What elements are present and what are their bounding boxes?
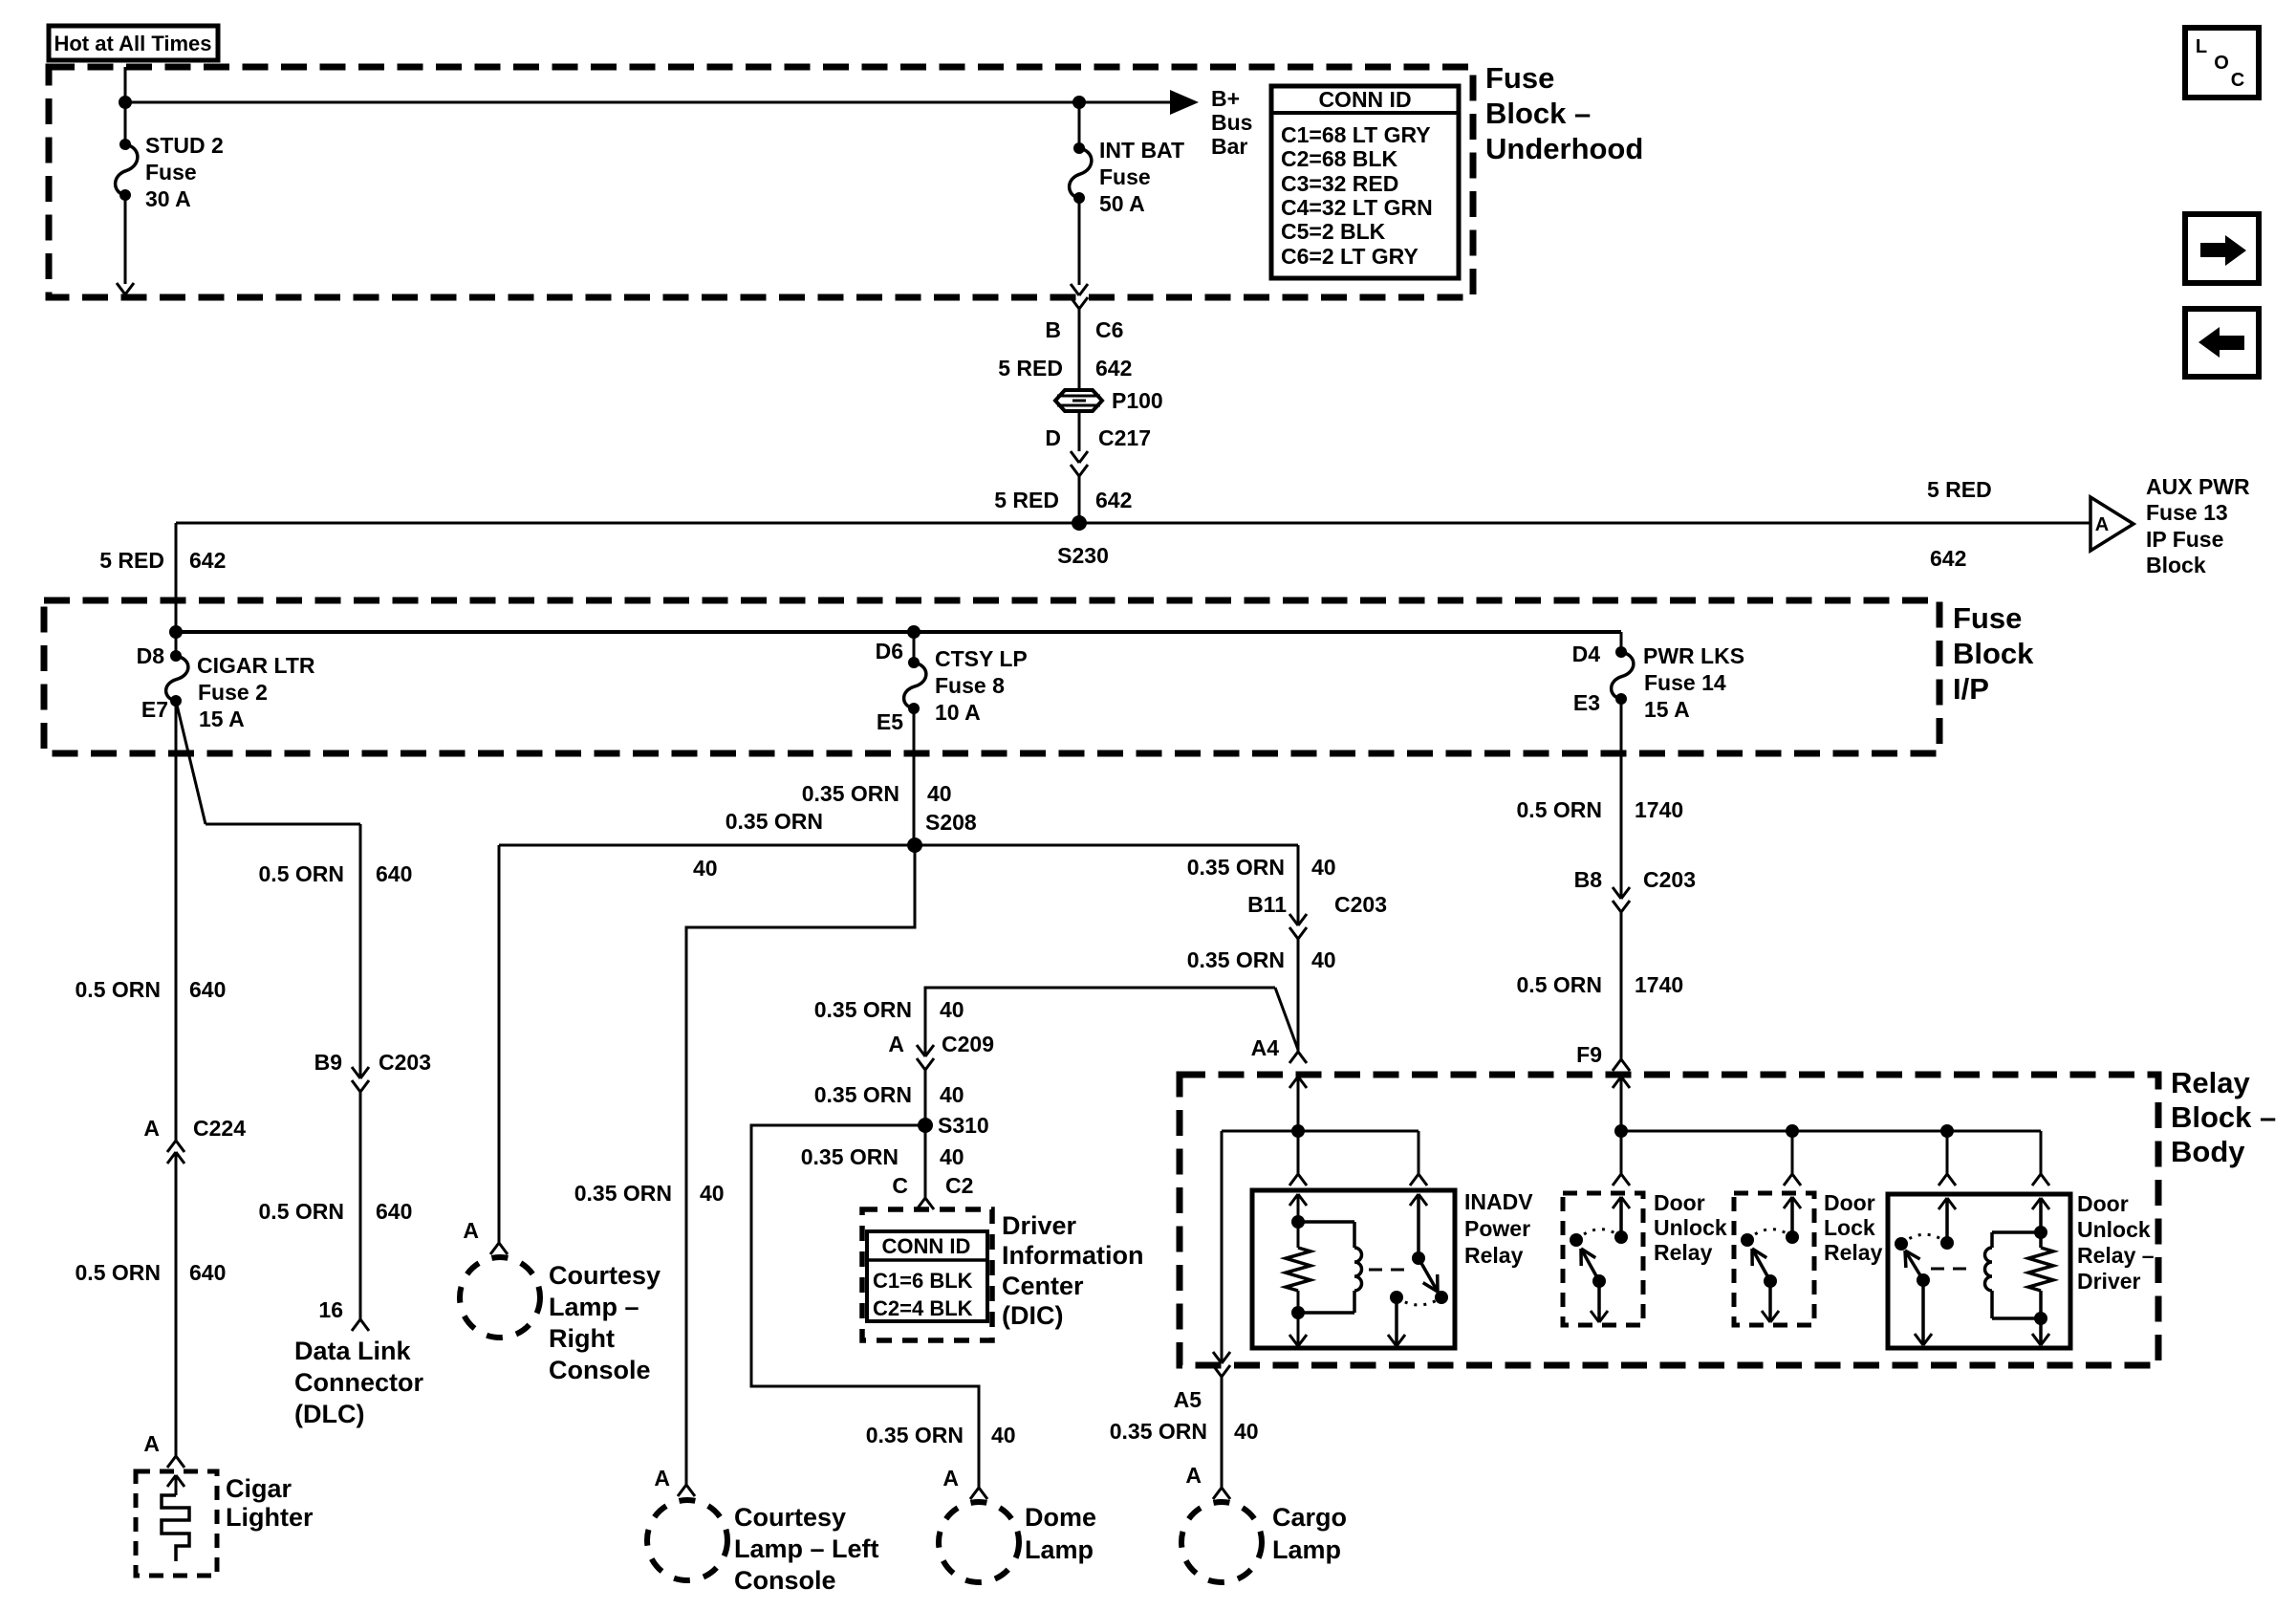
svg-text:640: 640 — [376, 861, 412, 886]
svg-text:A4: A4 — [1251, 1035, 1280, 1060]
svg-text:Relay –: Relay – — [2077, 1243, 2155, 1268]
connector: A / C224 — [167, 1141, 184, 1152]
svg-text:Bar: Bar — [1211, 134, 1247, 159]
svg-text:642: 642 — [1095, 488, 1132, 512]
svg-text:Unlock: Unlock — [1654, 1215, 1727, 1240]
svg-text:C203: C203 — [1643, 867, 1696, 892]
svg-text:C6=2 LT GRY: C6=2 LT GRY — [1281, 244, 1419, 269]
svg-text:Fuse 2: Fuse 2 — [198, 680, 268, 705]
svg-text:C2=68 BLK: C2=68 BLK — [1281, 146, 1397, 171]
svg-text:A: A — [143, 1116, 160, 1141]
switch: Door Unlock Relay — [1613, 1197, 1621, 1208]
svg-text:C2: C2 — [945, 1173, 973, 1198]
wire: S310 to DIC connector C2 — [924, 1125, 927, 1198]
wire: corner from DIC feeder to B11 line — [925, 988, 1275, 1056]
svg-text:D6: D6 — [876, 639, 903, 664]
wire: 0.35 ORN 40 from C209 to S310 — [924, 1070, 927, 1125]
connector chevron Lock relay — [1784, 1174, 1801, 1186]
connector: B9 / C203 — [352, 1067, 360, 1078]
svg-text:C1=68 LT GRY: C1=68 LT GRY — [1281, 122, 1431, 147]
svg-text:CIGAR LTR: CIGAR LTR — [197, 653, 315, 678]
connector: B8 / C203 — [1613, 887, 1621, 899]
svg-text:40: 40 — [693, 856, 718, 881]
svg-text:0.5 ORN: 0.5 ORN — [76, 1260, 161, 1285]
svg-text:0.35 ORN: 0.35 ORN — [814, 1082, 912, 1107]
svg-text:D: D — [1045, 425, 1061, 450]
wire: S230 drop to Fuse Block I/P — [175, 523, 178, 632]
svg-text:0.35 ORN: 0.35 ORN — [814, 997, 912, 1022]
svg-text:0.35 ORN: 0.35 ORN — [1110, 1419, 1207, 1444]
node: junction dot on B+ bus at STUD 2 feed — [119, 96, 132, 109]
wire: INADV coil output arrow — [1297, 1313, 1300, 1344]
wire: driver relay switch-side corner — [2040, 1131, 2043, 1174]
table: CONN ID (DIC) — [867, 1231, 987, 1321]
connector chevron driver relay switch pin — [1939, 1174, 1956, 1186]
wire: DLC branch horizontal — [206, 823, 360, 826]
svg-text:A: A — [1185, 1463, 1202, 1488]
svg-text:Relay: Relay — [2171, 1066, 2250, 1099]
svg-text:40: 40 — [1234, 1419, 1259, 1444]
wire: 5 RED 642 from C217 to S230 — [1078, 476, 1081, 523]
svg-text:A: A — [143, 1431, 160, 1456]
wire: feed drop to Door Lock relay — [1791, 1131, 1794, 1174]
wire: INT BAT fuse feed — [1078, 102, 1081, 148]
svg-text:B8: B8 — [1574, 867, 1603, 892]
connector chevron at dome lamp — [970, 1488, 987, 1499]
svg-text:640: 640 — [189, 1260, 226, 1285]
svg-text:Door: Door — [1824, 1190, 1875, 1215]
wire: I/P internal bus — [176, 630, 1621, 634]
svg-text:Block: Block — [1953, 637, 2034, 670]
connector: B / C6 at underhood block edge — [1071, 284, 1079, 295]
svg-text:A: A — [942, 1466, 959, 1490]
svg-text:S230: S230 — [1057, 543, 1109, 568]
component: Dome Lamp (dashed circle) — [939, 1502, 1019, 1582]
svg-text:Lamp: Lamp — [1025, 1535, 1094, 1564]
svg-text:C5=2 BLK: C5=2 BLK — [1281, 219, 1386, 244]
svg-text:40: 40 — [940, 997, 964, 1022]
wire: F9 into relay block — [1620, 1077, 1623, 1131]
svg-text:Unlock: Unlock — [2077, 1217, 2151, 1242]
svg-text:640: 640 — [376, 1199, 412, 1224]
component: INADV Power Relay (box) — [1252, 1190, 1455, 1348]
svg-text:Data Link: Data Link — [294, 1337, 412, 1365]
svg-text:Lamp –: Lamp – — [549, 1293, 639, 1321]
wire: S208 horizontal to courtesy lamp right and B11 — [499, 844, 1298, 847]
pin arrow into cigar lighter — [167, 1475, 176, 1487]
svg-text:AUX PWR: AUX PWR — [2146, 474, 2250, 499]
svg-text:Lighter: Lighter — [226, 1503, 314, 1532]
wire: 0.5 ORN 640 from C203 to DLC — [359, 1092, 362, 1319]
label box: Hot at All Times — [49, 26, 218, 60]
wire: INADV pin 2 drop — [1418, 1131, 1420, 1174]
svg-text:16: 16 — [318, 1297, 343, 1322]
svg-text:O: O — [2214, 53, 2229, 74]
svg-text:15 A: 15 A — [199, 707, 245, 731]
svg-text:10 A: 10 A — [935, 700, 981, 725]
svg-text:Hot at All Times: Hot at All Times — [54, 32, 211, 55]
wire: INT BAT fuse output with arrow to block edge — [1078, 198, 1081, 285]
wire: 0.35 ORN 40 from C203 to A4 — [1297, 939, 1300, 1052]
svg-text:5 RED: 5 RED — [994, 488, 1059, 512]
svg-text:1740: 1740 — [1635, 972, 1683, 997]
connector: A / C209 — [917, 1045, 925, 1056]
svg-text:Driver: Driver — [1002, 1211, 1077, 1240]
svg-text:(DIC): (DIC) — [1002, 1301, 1063, 1330]
connector chevron at courtesy lamp left — [678, 1485, 695, 1496]
connector chevron driver relay coil pin — [2032, 1174, 2049, 1186]
svg-text:C: C — [892, 1173, 908, 1198]
connector chevron INADV pin 2 — [1410, 1174, 1427, 1186]
element: cigar lighter heater — [162, 1495, 189, 1561]
fuse: INT BAT Fuse 50 A — [1070, 148, 1092, 198]
switch: Door Unlock Relay - Driver — [1939, 1198, 1947, 1209]
svg-text:0.35 ORN: 0.35 ORN — [726, 809, 823, 834]
svg-text:A: A — [888, 1032, 904, 1056]
svg-text:C203: C203 — [379, 1050, 431, 1075]
svg-text:0.35 ORN: 0.35 ORN — [1187, 947, 1285, 972]
svg-text:Fuse 14: Fuse 14 — [1644, 670, 1726, 695]
svg-text:Fuse: Fuse — [1485, 61, 1554, 95]
svg-text:Lock: Lock — [1824, 1215, 1875, 1240]
fuse: CTSY LP Fuse 8 10 A — [904, 663, 926, 708]
svg-text:C2=4 BLK: C2=4 BLK — [873, 1296, 973, 1320]
svg-text:5 RED: 5 RED — [998, 356, 1063, 381]
wire: 0.5 ORN 1740 from E3 to B8 — [1620, 699, 1623, 899]
wire: relay block bus (door relays) — [1621, 1130, 2041, 1133]
wire: 0.5 ORN 640 from C224 to cigar lighter — [175, 1152, 178, 1456]
svg-text:B: B — [1045, 317, 1061, 342]
svg-text:0.5 ORN: 0.5 ORN — [76, 977, 161, 1002]
svg-text:Body: Body — [2171, 1135, 2245, 1168]
svg-text:0.5 ORN: 0.5 ORN — [1517, 797, 1602, 822]
svg-text:B11: B11 — [1247, 892, 1287, 917]
svg-text:Dome: Dome — [1025, 1503, 1096, 1532]
wire: relay block bus (A4 side) — [1222, 1130, 1419, 1133]
arrow into relay block at F9 — [1613, 1077, 1621, 1088]
wire: A5 drop out of relay block — [1221, 1131, 1224, 1361]
component: Courtesy Lamp - Right Console (dashed circle) — [460, 1257, 540, 1338]
coil: INADV relay coil — [1298, 1220, 1354, 1224]
block: Fuse Block I/P (dashed) — [44, 600, 1939, 753]
node: junction dot at CIGAR LTR fuse feed — [169, 625, 183, 639]
connector chevron at A4 — [1289, 1052, 1307, 1063]
svg-text:A: A — [2095, 514, 2109, 535]
fuse: STUD 2 Fuse 30 A — [116, 144, 138, 195]
svg-text:E5: E5 — [877, 709, 903, 734]
svg-text:642: 642 — [189, 548, 226, 573]
component: Cargo Lamp (dashed circle) — [1181, 1502, 1262, 1582]
svg-text:0.5 ORN: 0.5 ORN — [259, 861, 344, 886]
svg-text:Courtesy: Courtesy — [734, 1503, 846, 1532]
connector chevron at courtesy lamp right — [490, 1243, 508, 1254]
component: Door Unlock Relay - Driver (box) — [1888, 1194, 2070, 1348]
svg-text:40: 40 — [700, 1181, 725, 1206]
svg-text:C1=6 BLK: C1=6 BLK — [873, 1269, 973, 1293]
wire: driver relay coil output arrow — [2039, 1318, 2043, 1343]
svg-text:Right: Right — [549, 1324, 615, 1353]
svg-text:CTSY LP: CTSY LP — [935, 646, 1028, 671]
wire: 0.5 ORN 640 down to B9 — [359, 824, 362, 1078]
svg-text:642: 642 — [1930, 546, 1966, 571]
svg-text:30 A: 30 A — [145, 186, 191, 211]
svg-text:A: A — [463, 1218, 479, 1243]
svg-text:A5: A5 — [1174, 1387, 1202, 1412]
svg-text:Relay: Relay — [1464, 1243, 1524, 1268]
svg-text:CONN ID: CONN ID — [1318, 87, 1411, 112]
wire: S310 left to dome lamp drop — [751, 1125, 979, 1488]
fuse: CIGAR LTR Fuse 2 15 A — [166, 656, 188, 701]
node: junction dot on B+ bus at INT BAT feed — [1072, 96, 1086, 109]
block: Relay Block - Body (dashed) — [1180, 1075, 2158, 1365]
dashed actuator link INADV — [1369, 1269, 1412, 1272]
resistor: INADV relay resistor — [1297, 1222, 1300, 1248]
wire: P100 to C217 — [1078, 411, 1081, 451]
block: Fuse Block - Underhood (dashed) — [49, 67, 1473, 297]
svg-text:(DLC): (DLC) — [294, 1400, 364, 1428]
icon: back arrow box — [2185, 309, 2259, 377]
connector chevron at cigar lighter — [167, 1456, 184, 1468]
wire: S230 horizontal bus to AUX PWR and IP fuse block — [176, 522, 2090, 525]
svg-text:L: L — [2196, 36, 2207, 57]
svg-text:0.35 ORN: 0.35 ORN — [1187, 855, 1285, 880]
wire: feed to CTSY LP fuse — [913, 632, 916, 663]
svg-text:C217: C217 — [1098, 425, 1151, 450]
svg-text:Console: Console — [549, 1356, 651, 1384]
svg-text:Cigar: Cigar — [226, 1474, 292, 1503]
connector: D / C217 — [1071, 451, 1079, 463]
svg-text:5 RED: 5 RED — [99, 548, 164, 573]
svg-text:50 A: 50 A — [1099, 191, 1145, 216]
svg-text:Bus: Bus — [1211, 110, 1252, 135]
svg-text:1740: 1740 — [1635, 797, 1683, 822]
svg-text:Underhood: Underhood — [1485, 132, 1643, 165]
svg-text:Fuse: Fuse — [145, 160, 197, 185]
svg-text:S208: S208 — [925, 810, 977, 835]
svg-text:CONN ID: CONN ID — [882, 1234, 971, 1258]
svg-text:0.5 ORN: 0.5 ORN — [1517, 972, 1602, 997]
wire: 5 RED 642 from C6 to P100 — [1078, 309, 1081, 390]
svg-text:40: 40 — [927, 781, 952, 806]
svg-text:0.35 ORN: 0.35 ORN — [801, 1144, 899, 1169]
svg-text:C3=32 RED: C3=32 RED — [1281, 171, 1398, 196]
svg-text:Lamp: Lamp — [1272, 1535, 1341, 1564]
coil: Door Unlock Relay - Driver coil — [2032, 1198, 2041, 1209]
splice: P100 — [1055, 390, 1102, 411]
svg-text:Door: Door — [1654, 1190, 1705, 1215]
wire: 0.35 ORN 40 from E5 to S208 — [913, 708, 916, 845]
wire: S208 line corner down to B11 — [1297, 845, 1300, 925]
svg-text:Fuse: Fuse — [1099, 164, 1151, 189]
svg-text:40: 40 — [1311, 855, 1336, 880]
node: junction dot door unlock relay feed — [1614, 1124, 1628, 1138]
svg-text:Door: Door — [2077, 1191, 2129, 1216]
wire: 0.5 ORN 640 from E7 down to C224 — [175, 701, 178, 1141]
svg-text:E7: E7 — [141, 697, 168, 722]
svg-text:Cargo: Cargo — [1272, 1503, 1347, 1532]
svg-text:15 A: 15 A — [1644, 697, 1690, 722]
component: Courtesy Lamp - Left Console (dashed circle) — [647, 1500, 727, 1580]
svg-text:C: C — [2231, 70, 2244, 91]
off-page connector A to AUX PWR Fuse 13 IP Fuse Block — [2090, 497, 2134, 551]
wire: S208 drop then left to courtesy lamp left console — [686, 845, 915, 1485]
node: junction dot at CTSY LP fuse feed — [907, 625, 921, 639]
wire: diagonal into A4 — [1275, 988, 1298, 1050]
svg-text:INT BAT: INT BAT — [1099, 138, 1184, 163]
wire: battery feed into STUD 2 fuse — [124, 67, 127, 144]
wire: STUD 2 fuse output with arrow to block edge — [124, 195, 127, 284]
wire: feed drop to Door Unlock relay — [1620, 1131, 1623, 1174]
connector chevron INADV pin 1 — [1289, 1174, 1307, 1186]
connector chevron at DIC — [917, 1198, 934, 1209]
node: junction dot driver relay switch feed — [1940, 1124, 1954, 1138]
svg-text:D8: D8 — [137, 643, 165, 668]
svg-text:Fuse 13: Fuse 13 — [2146, 500, 2228, 525]
dashed actuator link driver relay — [1931, 1268, 1971, 1271]
pin arrow INADV coil — [1289, 1194, 1298, 1206]
svg-text:Information: Information — [1002, 1241, 1144, 1270]
svg-text:C224: C224 — [193, 1116, 246, 1141]
node: junction dot A4 bus — [1291, 1124, 1305, 1138]
svg-text:P100: P100 — [1112, 388, 1163, 413]
svg-text:Connector: Connector — [294, 1368, 423, 1397]
svg-text:S310: S310 — [938, 1113, 989, 1138]
svg-text:B9: B9 — [314, 1050, 342, 1075]
table: CONN ID (underhood fuse block) — [1271, 86, 1459, 278]
svg-text:C6: C6 — [1095, 317, 1123, 342]
svg-text:F9: F9 — [1576, 1042, 1602, 1067]
icon: forward arrow box — [2185, 214, 2259, 283]
svg-text:Console: Console — [734, 1566, 836, 1595]
wire: feed drop to driver relay switch — [1946, 1131, 1949, 1174]
svg-text:Fuse 8: Fuse 8 — [935, 673, 1005, 698]
svg-text:Block –: Block – — [2171, 1100, 2276, 1134]
node: INADV coil top junction — [1291, 1215, 1305, 1229]
svg-text:C4=32 LT GRN: C4=32 LT GRN — [1281, 195, 1433, 220]
wire: B+ bus bar — [125, 101, 1179, 104]
svg-text:40: 40 — [940, 1082, 964, 1107]
svg-text:INADV: INADV — [1464, 1189, 1533, 1214]
connector chevron A5 below relay block — [1213, 1365, 1230, 1377]
svg-text:E3: E3 — [1573, 690, 1600, 715]
wire: drop to Courtesy Lamp - Right Console — [498, 845, 501, 1243]
switch: Door Lock Relay — [1784, 1197, 1792, 1208]
icon: LOC box — [2185, 28, 2259, 98]
connector chevron at DLC — [352, 1319, 369, 1331]
wire: A4 into relay block — [1297, 1077, 1300, 1131]
svg-text:Block –: Block – — [1485, 97, 1591, 130]
wire: INADV pin 1 drop — [1297, 1131, 1300, 1174]
wire: 0.5 ORN 1740 from C203 to F9 — [1620, 912, 1623, 1059]
resistor: Door Unlock Relay - Driver resistor — [2028, 1248, 2053, 1291]
node: junction dot door lock relay feed — [1786, 1124, 1799, 1138]
arrow: B+ bus bar arrowhead — [1170, 90, 1199, 115]
svg-text:I/P: I/P — [1953, 672, 1989, 706]
component: Cigar Lighter (dashed box) — [136, 1471, 217, 1576]
svg-text:C203: C203 — [1334, 892, 1387, 917]
svg-text:Block: Block — [2146, 553, 2206, 577]
svg-text:B+: B+ — [1211, 86, 1240, 111]
svg-text:PWR LKS: PWR LKS — [1643, 643, 1744, 668]
svg-text:0.5 ORN: 0.5 ORN — [259, 1199, 344, 1224]
svg-text:40: 40 — [991, 1423, 1016, 1447]
connector chevron at cargo lamp — [1213, 1488, 1230, 1499]
svg-text:40: 40 — [1311, 947, 1336, 972]
svg-text:0.35 ORN: 0.35 ORN — [802, 781, 899, 806]
svg-text:40: 40 — [940, 1144, 964, 1169]
svg-text:Courtesy: Courtesy — [549, 1261, 661, 1290]
fuse: PWR LKS Fuse 14 15 A — [1612, 652, 1634, 699]
wire: feed to CIGAR LTR fuse — [175, 632, 178, 656]
svg-text:A: A — [654, 1466, 670, 1490]
svg-text:Fuse: Fuse — [1953, 601, 2022, 635]
svg-text:D4: D4 — [1572, 642, 1601, 666]
svg-text:IP Fuse: IP Fuse — [2146, 527, 2223, 552]
component: Door Lock Relay (dashed box) — [1734, 1193, 1814, 1325]
svg-text:5 RED: 5 RED — [1927, 477, 1992, 502]
svg-text:Relay: Relay — [1654, 1240, 1713, 1265]
component: Door Unlock Relay (dashed box) — [1563, 1193, 1643, 1325]
node: splice S310 — [918, 1118, 933, 1133]
wire: E7 diagonal to DLC branch — [176, 701, 206, 824]
connector chevron at F9 — [1613, 1059, 1630, 1071]
svg-text:C209: C209 — [942, 1032, 994, 1056]
switch: INADV relay switch — [1417, 1194, 1420, 1258]
svg-text:640: 640 — [189, 977, 226, 1002]
node: splice S208 — [907, 838, 922, 853]
svg-text:0.35 ORN: 0.35 ORN — [866, 1423, 964, 1447]
node: INADV coil bottom junction — [1291, 1306, 1305, 1319]
node: splice S230 — [1072, 515, 1087, 531]
svg-text:0.35 ORN: 0.35 ORN — [574, 1181, 672, 1206]
svg-text:Relay: Relay — [1824, 1240, 1883, 1265]
component: Driver Information Center (dashed box) — [862, 1209, 992, 1340]
wire: 0.35 ORN 40 to cargo lamp — [1221, 1377, 1224, 1488]
svg-text:Driver: Driver — [2077, 1269, 2141, 1294]
svg-text:642: 642 — [1095, 356, 1132, 381]
svg-text:STUD 2: STUD 2 — [145, 133, 224, 158]
connector chevron Unlock relay — [1613, 1174, 1630, 1186]
svg-text:Lamp – Left: Lamp – Left — [734, 1534, 879, 1563]
svg-text:Center: Center — [1002, 1272, 1084, 1300]
arrow into relay block at A4 — [1289, 1077, 1298, 1088]
connector: B11 / C203 — [1289, 914, 1298, 925]
wire: bus corner down to PWR LKS fuse — [1620, 632, 1623, 652]
svg-text:Power: Power — [1464, 1216, 1530, 1241]
